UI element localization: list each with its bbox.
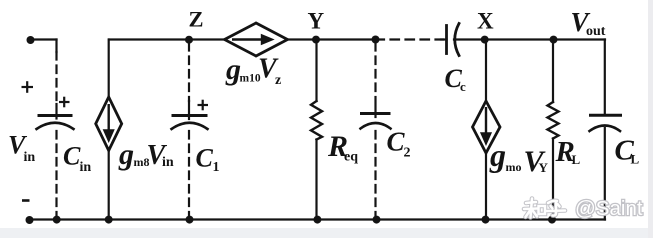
svg-text:L: L: [631, 152, 640, 167]
svg-text:out: out: [586, 24, 606, 39]
svg-text:C: C: [63, 142, 81, 171]
svg-text:Z: Z: [189, 7, 204, 32]
svg-text:Y: Y: [539, 160, 549, 175]
svg-text:L: L: [572, 152, 581, 167]
svg-text:in: in: [80, 160, 92, 175]
svg-text:g: g: [489, 137, 506, 173]
svg-text:in: in: [162, 155, 174, 170]
svg-text:2: 2: [404, 146, 411, 161]
svg-text:in: in: [24, 150, 36, 165]
svg-text:g: g: [118, 138, 134, 171]
svg-text:mo: mo: [506, 160, 522, 174]
svg-text:z: z: [275, 73, 281, 88]
svg-text:c: c: [460, 79, 466, 94]
svg-text:Y: Y: [308, 9, 325, 34]
svg-text:C: C: [196, 144, 214, 173]
svg-text:X: X: [477, 9, 494, 34]
svg-text:@Saint: @Saint: [575, 197, 643, 220]
svg-text:1: 1: [213, 160, 220, 175]
svg-text:eq: eq: [344, 150, 358, 165]
